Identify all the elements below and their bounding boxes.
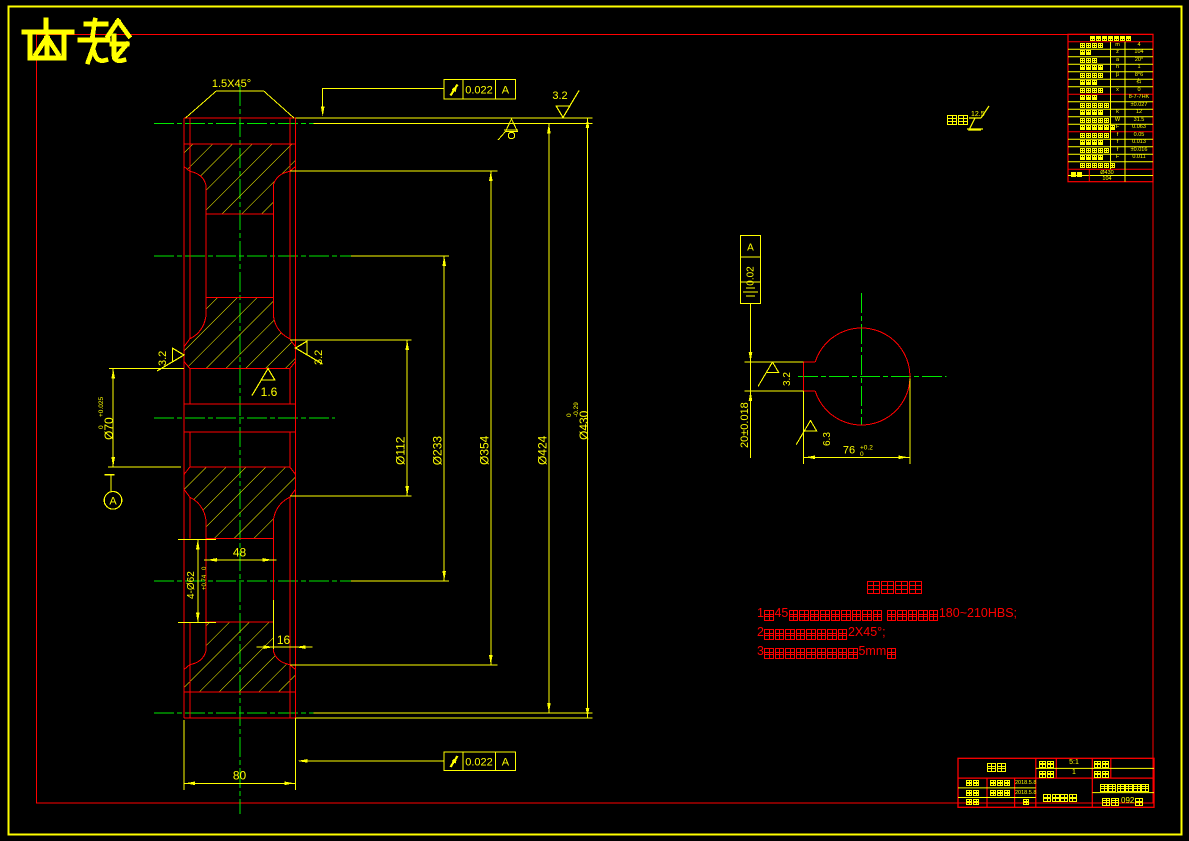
general roughness note (qi yu) (947, 115, 969, 125)
web thickness dimension 48 (204, 559, 277, 561)
hatched rim section bottom (184, 622, 296, 692)
width dimension 80 extension lines (183, 720, 185, 790)
dimension &#216;424 line (548, 123, 550, 713)
machining mark on pitch line (498, 119, 518, 140)
extension line pitch top (314, 122, 593, 124)
extension line tip top (long) (296, 117, 593, 119)
pitch line top (green) (154, 122, 314, 124)
geometric tolerance frame bottom (runout 0.022 A) (444, 752, 516, 770)
roughness 6.3 keyway bottom (796, 421, 817, 445)
drawing title text 齿轮 (gear), stroke-drawn (24, 20, 129, 62)
lightening hole dimension line (197, 539, 199, 622)
dimension &#216;233 line (443, 256, 445, 581)
hatched hub section lower (184, 467, 296, 538)
gear vertical centerline (green) (239, 86, 241, 814)
extension line hub diameter top (290, 339, 412, 341)
tech req line 2 (757, 626, 886, 639)
tech req line 3 (757, 645, 897, 658)
extension line pitch bottom (314, 712, 593, 714)
roughness 3.2 keyway (758, 362, 779, 386)
rim secondary line right (289, 118, 291, 339)
keyway side walls (183, 404, 185, 432)
keyway width dimension line (750, 303, 752, 458)
dimension &#216;354 line (490, 171, 492, 665)
extension line rim inner top (290, 170, 498, 172)
leader for top tolerance frame (323, 88, 444, 112)
roughness 3.2 left hub face (157, 348, 184, 371)
project cell 毕业设计 (1043, 794, 1077, 802)
recess depth dimension 16 (256, 646, 312, 648)
tech req line 1 (757, 607, 1017, 620)
keyway width dimension 20 extension lines (745, 361, 804, 363)
gear bottom face line (184, 717, 296, 719)
extension line hole circle top (351, 255, 449, 257)
gear top face (tip) line (184, 117, 296, 119)
symmetry tolerance frame (0.02 A) vertical (741, 236, 761, 304)
gear left face line (183, 118, 185, 718)
dimension diameter 430 line (587, 118, 589, 718)
gear right face line (295, 118, 297, 718)
web face lines through holes (205, 214, 207, 298)
parameter table header (1090, 36, 1132, 41)
bore circle with keyway (804, 328, 910, 425)
roughness 3.2 right hub face (296, 341, 323, 364)
extension of right face down to leader (295, 718, 297, 787)
lightening hole dimension 4-62 extension lines (178, 538, 216, 540)
hatched rim section top (184, 144, 296, 214)
hatched hub section upper (184, 298, 296, 369)
leader for bottom tolerance frame (299, 760, 444, 762)
gear horizontal axis centerline (154, 417, 335, 419)
pitch line bottom (green) (154, 712, 314, 714)
part name cell (987, 763, 1007, 772)
right view vertical centerline (861, 293, 863, 426)
extension line rim inner bottom (290, 664, 498, 666)
keyway depth dimension 76 (804, 456, 911, 458)
extension line tip bottom (long) (296, 717, 593, 719)
dimension &#216;112 line (406, 340, 408, 496)
lower hole centerline (green) (154, 580, 351, 582)
keyway section lines (184, 403, 296, 405)
technical requirements title (867, 581, 923, 594)
geometric tolerance frame top (runout 0.022 A) (444, 80, 516, 99)
width dimension 80 (184, 782, 296, 784)
extension line hole circle bottom (351, 580, 449, 582)
bore wall lines (189, 369, 191, 405)
datum A symbol (105, 474, 115, 476)
rim secondary line left (189, 118, 191, 339)
roughness 3.2 on top tip line (556, 91, 579, 118)
bore dimension 70 extension lines (109, 368, 184, 370)
extension line hub diameter bottom (290, 495, 412, 497)
roughness 1.6 bore surface (252, 369, 275, 396)
bore dimension 70 line (112, 369, 114, 468)
tooth tip chamfer outline 1.5X45 (186, 91, 295, 118)
keyway depth dimension 76 extension lines (803, 391, 805, 464)
upper hole centerline (green) (154, 255, 351, 257)
school cell 河南科技大学 (1100, 784, 1150, 792)
right view horizontal centerline (798, 376, 947, 378)
